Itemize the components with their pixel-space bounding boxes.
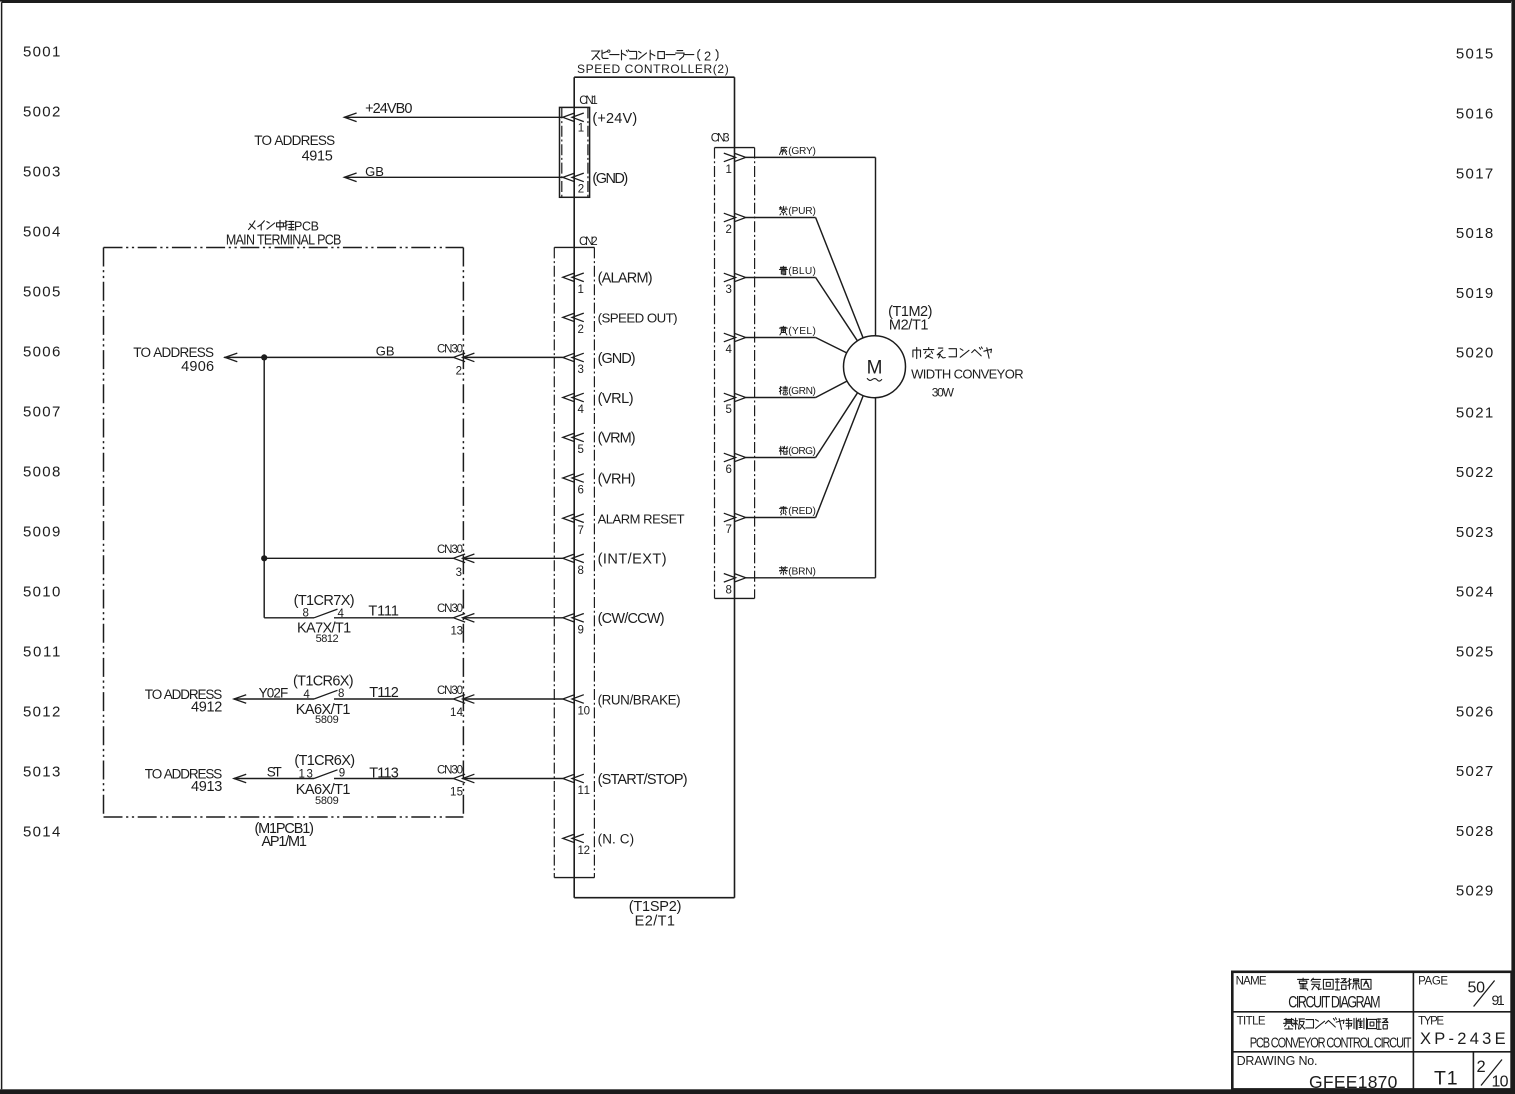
svg-text:(ORG): (ORG) — [788, 446, 816, 457]
svg-text:4: 4 — [337, 608, 344, 620]
net label +24VB0 — [365, 101, 412, 117]
CN3 pin 4 chevron — [724, 333, 746, 342]
svg-text:(GRY): (GRY) — [788, 146, 816, 157]
main terminal PCB box (M1PCB1) AP1/M1 dashed outline — [104, 248, 464, 818]
net label GB (upper) — [365, 164, 384, 179]
CN2 pin 2 label (SPEED OUT) — [598, 311, 678, 326]
CN2 pin 10 chevron — [563, 695, 584, 704]
svg-text:5009: 5009 — [23, 524, 60, 541]
svg-text:5027: 5027 — [1456, 763, 1493, 780]
svg-text:12: 12 — [578, 845, 591, 857]
CN2 pin 8 label (INT/EXT) — [598, 552, 667, 568]
svg-text:(GRN): (GRN) — [788, 386, 816, 397]
svg-text:5015: 5015 — [1456, 46, 1493, 63]
svg-text:AP1/M1: AP1/M1 — [261, 834, 307, 850]
CN2 pin 3 number — [578, 364, 584, 376]
CN3 pin 6 wire colour label 橙(ORG) — [779, 446, 816, 457]
svg-text:TO ADDRESS: TO ADDRESS — [254, 133, 335, 148]
svg-text:5: 5 — [725, 404, 731, 416]
label TO ADDRESS 4915 — [254, 133, 335, 164]
svg-text:(BLU): (BLU) — [788, 266, 816, 277]
wire INT/EXT to CN2 pin8 — [463, 557, 563, 559]
wire +24VB0 from CN1 pin1 — [344, 116, 563, 118]
CN2 pin 7 label ALARM RESET — [598, 512, 685, 527]
svg-text:GFEE1870: GFEE1870 — [1309, 1072, 1398, 1092]
svg-text:MAIN TERMINAL PCB: MAIN TERMINAL PCB — [226, 231, 342, 247]
CN2 pin 3 label (GND) — [598, 351, 636, 367]
CN2 pin 10 number — [578, 706, 591, 718]
CN3 pin 7 chevron — [724, 513, 746, 522]
svg-text:E2/T1: E2/T1 — [635, 913, 675, 929]
svg-text:5020: 5020 — [1456, 345, 1493, 362]
svg-text:ST: ST — [267, 764, 282, 779]
wire INT/EXT row — [264, 557, 453, 559]
svg-text:CIRCUIT DIAGRAM: CIRCUIT DIAGRAM — [1288, 994, 1380, 1012]
motor label M2/T1 — [889, 317, 929, 333]
CN30 pin 15 number — [450, 786, 463, 798]
motor M symbol — [867, 358, 883, 381]
svg-text:2: 2 — [725, 224, 731, 236]
CN3 pin 7 number — [725, 524, 731, 536]
svg-text:8: 8 — [578, 565, 584, 577]
title block title (Japanese) 基板コンベヤ制御回路 — [1284, 1018, 1389, 1030]
CN30 pin 3 number — [456, 567, 462, 579]
arrow to address (net GB lower) — [225, 353, 237, 362]
svg-text:(YEL): (YEL) — [788, 326, 816, 337]
svg-text:(GND): (GND) — [598, 351, 636, 367]
svg-text:5017: 5017 — [1456, 165, 1493, 182]
svg-text:CN30: CN30 — [437, 764, 463, 776]
T111 relay name (T1CR7X) — [294, 593, 355, 609]
speed controller title SPEED CONTROLLER(2) — [577, 62, 729, 76]
svg-text:2: 2 — [1477, 1058, 1486, 1076]
svg-text:5003: 5003 — [23, 164, 60, 181]
svg-text:(T1CR6X): (T1CR6X) — [293, 674, 354, 690]
svg-text:CN30: CN30 — [437, 685, 463, 697]
svg-text:TYPE: TYPE — [1418, 1016, 1444, 1028]
svg-text:50: 50 — [1468, 980, 1486, 997]
CN3 pin 1 number — [725, 164, 731, 176]
CN3 pin 6 number — [725, 464, 731, 476]
CN2 pin 11 label (START/STOP) — [598, 772, 688, 788]
svg-text:(BRN): (BRN) — [788, 567, 816, 578]
svg-text:6: 6 — [725, 464, 731, 476]
svg-text:5028: 5028 — [1456, 823, 1493, 840]
svg-text:1: 1 — [725, 164, 731, 176]
T113 pin numbers 13 / 9 — [298, 768, 345, 781]
CN3 pin 5 number — [725, 404, 731, 416]
svg-text:(VRM): (VRM) — [598, 431, 636, 447]
CN2 pin 9 chevron — [563, 614, 584, 623]
wire CN3 pin 8 to motor ((BRN)) — [746, 398, 876, 578]
CN3 pin 4 number — [725, 344, 732, 356]
svg-text:1: 1 — [578, 123, 584, 135]
svg-text:(N. C): (N. C) — [598, 832, 635, 847]
svg-text:13: 13 — [298, 768, 313, 780]
svg-text:8: 8 — [302, 608, 308, 620]
CN2 pin 1 number — [578, 284, 584, 296]
svg-text:4912: 4912 — [191, 700, 222, 716]
svg-text:5812: 5812 — [316, 633, 339, 645]
CN2 pin 4 number — [578, 404, 585, 416]
svg-text:TITLE: TITLE — [1237, 1016, 1266, 1028]
net label Y02F — [259, 686, 289, 701]
svg-text:5809: 5809 — [315, 714, 339, 726]
CN2 pin 12 label (N. C) — [598, 832, 635, 847]
speed controller title (Japanese katakana) — [592, 48, 718, 63]
CN2 pin 1 label (ALARM) — [598, 271, 653, 287]
title block DRAWING No. — [1237, 1054, 1318, 1068]
CN1 pin 2 number — [578, 184, 584, 196]
svg-text:5013: 5013 — [23, 764, 60, 781]
title block PAGE — [1418, 975, 1448, 987]
wire RUN/BRAKE to CN2 pin10 — [463, 698, 563, 700]
motor label 30W — [932, 386, 955, 400]
svg-text:5001: 5001 — [23, 44, 60, 61]
CN3 pin 2 chevron — [724, 213, 746, 222]
CN3 pin 7 wire colour label 赤(RED) — [779, 506, 816, 517]
CN3 pin 5 chevron — [724, 393, 746, 402]
left margin line numbers 5001-5014 — [23, 44, 60, 841]
label (M1PCB1) — [254, 821, 314, 837]
svg-text:2: 2 — [704, 48, 711, 63]
svg-text:9: 9 — [339, 768, 345, 780]
svg-text:CN2: CN2 — [579, 236, 598, 248]
CN2 pin 4 label (VRL) — [598, 391, 634, 407]
wire CN3 pin 2 to motor ((PUR)) — [746, 218, 863, 338]
connector CN3 housing — [715, 148, 755, 599]
svg-text:M2/T1: M2/T1 — [889, 317, 929, 333]
CN30 pin 13 number — [451, 625, 464, 637]
svg-text:(VRL): (VRL) — [598, 391, 634, 407]
svg-text:5018: 5018 — [1456, 225, 1493, 242]
arrow to address (net +24VB0) — [344, 113, 356, 122]
CN1 pin 1 chevron — [563, 113, 584, 122]
svg-text:T112: T112 — [369, 685, 399, 701]
relay contact T113 (T1CR6X) KA6X/T1 — [234, 770, 454, 779]
CN1 pin 2 chevron — [563, 173, 584, 182]
svg-text:(SPEED OUT): (SPEED OUT) — [598, 311, 678, 326]
title block NAME — [1236, 975, 1267, 987]
svg-text:10: 10 — [1492, 1074, 1509, 1091]
CN30 label (pin15) — [437, 764, 463, 776]
CN2 pin 9 label (CW/CCW) — [598, 611, 665, 627]
svg-text:WIDTH CONVEYOR: WIDTH CONVEYOR — [911, 366, 1024, 381]
connector CN3 label — [711, 133, 730, 145]
wire CN3 pin 1 to motor ((GRY)) — [746, 157, 876, 335]
T113 sheet ref 5809 — [315, 795, 339, 807]
CN2 pin 5 chevron — [563, 433, 584, 442]
junction dot INT/EXT — [261, 555, 267, 561]
svg-text:CN30: CN30 — [437, 603, 463, 615]
T111 coil ref KA7X/T1 — [297, 621, 351, 637]
svg-text:T113: T113 — [369, 766, 399, 782]
svg-text:5010: 5010 — [23, 584, 60, 601]
svg-text:5019: 5019 — [1456, 285, 1493, 302]
svg-text:4: 4 — [578, 404, 585, 416]
net label GB (lower) — [376, 343, 395, 358]
CN2 pin 5 label (VRM) — [598, 431, 636, 447]
title block frame — [1232, 972, 1511, 1090]
junction dot GB/vertical bus — [261, 354, 267, 360]
arrow to address (net ST) — [234, 774, 246, 783]
connector CN30 pin 15 chevron — [453, 774, 474, 783]
CN2 pin 12 chevron — [563, 834, 584, 843]
svg-text:(RED): (RED) — [788, 506, 816, 517]
title block drawing number GFEE1870 — [1309, 1072, 1398, 1092]
svg-text:13: 13 — [451, 625, 464, 637]
svg-text:(ALARM): (ALARM) — [598, 271, 653, 287]
svg-text:7: 7 — [725, 524, 731, 536]
svg-text:8: 8 — [338, 688, 344, 700]
svg-text:T1: T1 — [1434, 1067, 1458, 1089]
label TO ADDRESS 4913 — [145, 766, 223, 795]
wire GB row — [224, 356, 453, 358]
svg-text:3: 3 — [456, 567, 462, 579]
svg-text:15: 15 — [450, 786, 463, 798]
svg-text:(CW/CCW): (CW/CCW) — [598, 611, 665, 627]
connector CN30 pin 3 chevron — [453, 554, 474, 563]
svg-text:5025: 5025 — [1456, 644, 1493, 661]
T112 pin numbers 4 / 8 — [303, 688, 344, 701]
svg-text:5029: 5029 — [1456, 883, 1493, 900]
CN3 pin 6 chevron — [724, 453, 746, 462]
CN30 label (pin13) — [437, 603, 463, 615]
CN3 pin 1 chevron — [724, 153, 746, 162]
CN3 pin 8 number — [725, 584, 731, 596]
svg-text:(T1CR7X): (T1CR7X) — [294, 593, 355, 609]
svg-text:1: 1 — [578, 284, 584, 296]
CN3 pin 5 wire colour label 緑(GRN) — [779, 386, 816, 397]
svg-text:5023: 5023 — [1456, 524, 1493, 541]
title block name (Japanese) 電気回路線図 — [1298, 978, 1372, 990]
main terminal PCB title (Japanese) — [249, 219, 322, 233]
wire CN3 pin 4 to motor ((YEL)) — [746, 338, 847, 353]
CN30 label (pin2) — [437, 344, 463, 356]
T113 relay name (T1CR6X) — [294, 753, 355, 769]
T111 sheet ref 5812 — [316, 633, 339, 645]
CN2 pin 11 chevron — [563, 774, 584, 783]
svg-text:CN3: CN3 — [711, 133, 730, 145]
motor label width conveyor (Japanese) — [913, 347, 992, 359]
svg-text:9: 9 — [578, 625, 584, 637]
svg-text:4: 4 — [303, 689, 310, 701]
svg-text:4913: 4913 — [191, 779, 222, 795]
label TO ADDRESS 4906 — [133, 345, 214, 375]
connector CN30 pin 2 chevron — [453, 353, 474, 362]
svg-text:5014: 5014 — [23, 824, 60, 841]
svg-text:5021: 5021 — [1456, 404, 1493, 421]
relay contact T111 (T1CR7X) KA7X/T1 — [264, 609, 453, 618]
CN2 pin 9 number — [578, 625, 584, 637]
CN3 pin 3 number — [725, 284, 731, 296]
svg-text:CN1: CN1 — [579, 95, 598, 107]
wire vertical bus inside PCB — [263, 357, 265, 617]
svg-text:(+24V): (+24V) — [592, 111, 637, 127]
label TO ADDRESS 4912 — [145, 687, 223, 716]
speed controller box outline (T1SP2) — [574, 77, 734, 898]
svg-text:3: 3 — [578, 364, 584, 376]
svg-text:91: 91 — [1492, 992, 1505, 1008]
svg-text:5809: 5809 — [315, 795, 339, 807]
svg-text:3: 3 — [725, 284, 731, 296]
wire CW/CCW to CN2 pin9 — [463, 617, 563, 619]
CN3 pin 4 wire colour label 黄(YEL) — [779, 326, 816, 337]
CN2 pin 1 chevron — [563, 273, 584, 282]
wire GB to CN2 pin3 — [463, 356, 563, 358]
CN2 pin 6 chevron — [563, 474, 584, 483]
svg-text:(GND): (GND) — [592, 171, 628, 187]
right margin line numbers 5015-5029 — [1456, 46, 1493, 900]
title block CIRCUIT DIAGRAM — [1288, 994, 1380, 1012]
label E2/T1 — [635, 913, 675, 929]
title block sheet 2/10 — [1477, 1058, 1509, 1091]
connector CN30 pin 13 chevron — [453, 614, 474, 623]
CN3 pin 8 wire colour label 茶(BRN) — [779, 567, 816, 578]
net label T113 — [369, 766, 399, 782]
svg-text:5004: 5004 — [23, 224, 60, 241]
CN2 pin 6 label (VRH) — [598, 471, 636, 487]
motor M (T1M2) circle — [844, 336, 906, 398]
CN3 pin 2 number — [725, 224, 731, 236]
svg-text:PCB CONVEYOR CONTROL CIRCUIT: PCB CONVEYOR CONTROL CIRCUIT — [1250, 1034, 1412, 1051]
svg-text:+24VB0: +24VB0 — [365, 101, 412, 117]
arrow to address (net Y02F) — [234, 695, 246, 704]
connector CN1 housing — [560, 107, 590, 197]
svg-text:30W: 30W — [932, 386, 955, 400]
svg-text:M: M — [867, 358, 883, 379]
CN1 pin 2 label (GND) — [592, 171, 628, 187]
CN2 pin 8 chevron — [563, 554, 584, 563]
connector CN2 label — [579, 236, 598, 248]
CN2 pin 12 number — [578, 845, 591, 857]
title block TYPE — [1418, 1016, 1444, 1028]
motor label WIDTH CONVEYOR — [911, 366, 1024, 381]
connector CN30 pin 14 chevron — [453, 695, 474, 704]
svg-text:5002: 5002 — [23, 104, 60, 121]
svg-text:ALARM RESET: ALARM RESET — [598, 512, 685, 527]
svg-text:(INT/EXT): (INT/EXT) — [598, 552, 667, 568]
svg-text:(VRH): (VRH) — [598, 471, 636, 487]
svg-text:5024: 5024 — [1456, 584, 1493, 601]
svg-text:5008: 5008 — [23, 464, 60, 481]
svg-text:2: 2 — [456, 366, 462, 378]
CN30 pin 2 number — [456, 366, 462, 378]
CN30 label (pin3) — [437, 544, 463, 556]
svg-text:SPEED CONTROLLER(2): SPEED CONTROLLER(2) — [577, 62, 729, 76]
CN2 pin 10 label (RUN/BRAKE) — [598, 692, 681, 707]
svg-text:4906: 4906 — [181, 359, 214, 375]
CN2 pin 3 chevron — [563, 353, 584, 362]
main terminal PCB title MAIN TERMINAL PCB — [226, 231, 342, 247]
svg-text:5: 5 — [578, 444, 584, 456]
svg-text:GB: GB — [376, 343, 395, 358]
CN1 pin 1 label (+24V) — [592, 111, 637, 127]
svg-text:CN30: CN30 — [437, 344, 463, 356]
svg-text:TO ADDRESS: TO ADDRESS — [133, 345, 214, 360]
svg-text:7: 7 — [578, 525, 584, 537]
svg-text:T111: T111 — [368, 603, 399, 619]
arrow to address (net GB upper) — [344, 173, 356, 182]
CN2 pin 2 number — [578, 324, 584, 336]
svg-text:4915: 4915 — [302, 148, 333, 164]
svg-text:11: 11 — [578, 785, 591, 797]
title block PCB CONVEYOR CONTROL CIRCUIT — [1250, 1034, 1412, 1051]
CN3 pin 3 wire colour label 青(BLU) — [779, 266, 816, 277]
connector CN2 housing — [554, 247, 594, 877]
CN3 pin 2 wire colour label 紫(PUR) — [779, 206, 816, 217]
svg-text:(START/STOP): (START/STOP) — [598, 772, 688, 788]
svg-text:5006: 5006 — [23, 344, 60, 361]
svg-text:5007: 5007 — [23, 404, 60, 421]
T112 relay name (T1CR6X) — [293, 674, 354, 690]
T111 pin numbers 8 / 4 — [302, 608, 344, 620]
svg-text:4: 4 — [725, 344, 732, 356]
wire START/STOP to CN2 pin11 — [463, 778, 563, 780]
title block page number 50/91 — [1468, 980, 1505, 1008]
CN30 label (pin14) — [437, 685, 463, 697]
T112 sheet ref 5809 — [315, 714, 339, 726]
svg-text:(PUR): (PUR) — [788, 206, 816, 217]
CN3 pin 8 chevron — [724, 574, 746, 583]
wire CN3 pin 7 to motor ((RED)) — [746, 396, 863, 518]
T113 coil ref KA6X/T1 — [296, 782, 351, 798]
wire GB from CN1 pin2 — [344, 176, 563, 178]
connector CN1 label — [579, 95, 598, 107]
CN2 pin 7 number — [578, 525, 584, 537]
wire CN3 pin 3 to motor ((BLU)) — [746, 278, 858, 341]
net label T112 — [369, 685, 399, 701]
label (T1SP2) — [629, 899, 682, 915]
wire CN3 pin 5 to motor ((GRN)) — [746, 381, 847, 397]
CN2 pin 7 chevron — [563, 514, 584, 523]
title block type XP-243E — [1420, 1030, 1506, 1048]
CN3 pin 1 wire colour label 灰(GRY) — [780, 146, 816, 157]
svg-text:(RUN/BRAKE): (RUN/BRAKE) — [598, 692, 681, 707]
svg-text:5016: 5016 — [1456, 106, 1493, 123]
CN2 pin 6 number — [578, 485, 584, 497]
relay contact T112 (T1CR6X) KA6X/T1 — [234, 690, 454, 699]
svg-text:DRAWING No.: DRAWING No. — [1237, 1054, 1318, 1068]
svg-text:10: 10 — [578, 706, 591, 718]
net label ST — [267, 764, 282, 779]
CN2 pin 8 number — [578, 565, 584, 577]
wire CN3 pin 6 to motor ((ORG)) — [746, 393, 858, 458]
label AP1/M1 — [261, 834, 307, 850]
CN2 pin 11 number — [578, 785, 591, 797]
CN2 pin 2 chevron — [563, 313, 584, 322]
svg-text:NAME: NAME — [1236, 975, 1267, 987]
CN30 pin 14 number — [450, 707, 464, 719]
svg-text:5005: 5005 — [23, 284, 60, 301]
svg-text:5026: 5026 — [1456, 703, 1493, 720]
svg-text:2: 2 — [578, 324, 584, 336]
svg-text:5012: 5012 — [23, 704, 60, 721]
svg-text:5022: 5022 — [1456, 464, 1493, 481]
svg-text:PAGE: PAGE — [1418, 975, 1448, 987]
CN1 pin 1 number — [578, 123, 584, 135]
motor label (T1M2) — [888, 304, 932, 320]
CN3 pin 3 chevron — [724, 273, 746, 282]
T112 coil ref KA6X/T1 — [296, 702, 351, 718]
net label T111 — [368, 603, 399, 619]
CN2 pin 4 chevron — [563, 393, 584, 402]
svg-text:2: 2 — [578, 184, 584, 196]
title block TITLE — [1237, 1016, 1266, 1028]
svg-text:6: 6 — [578, 485, 584, 497]
title block sheet T1 — [1434, 1067, 1458, 1089]
svg-text:14: 14 — [450, 707, 464, 719]
